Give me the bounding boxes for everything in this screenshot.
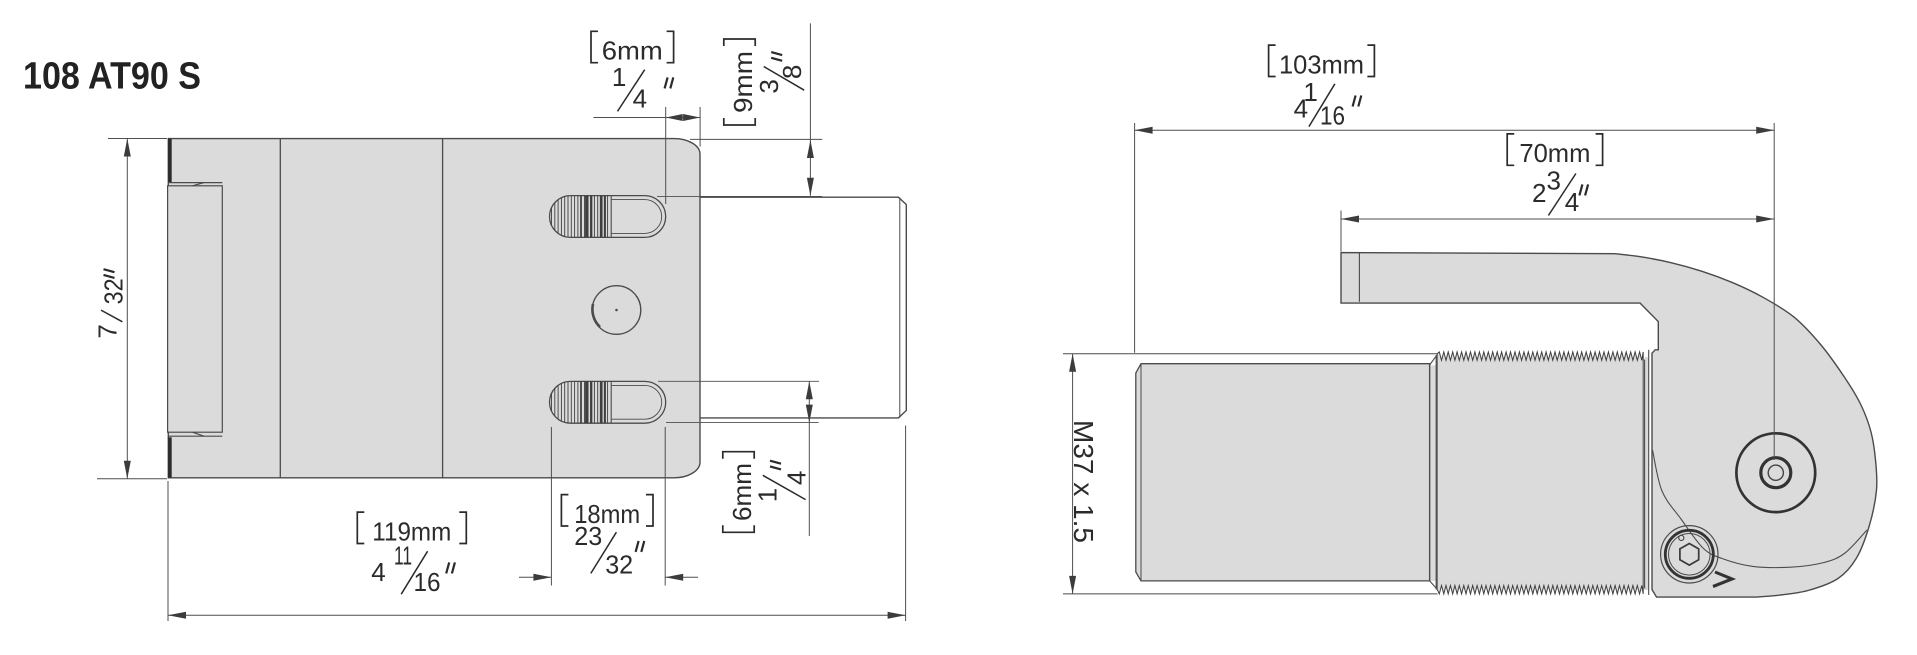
svg-text:23: 23 xyxy=(574,521,602,551)
thread run-out chamfer bottom xyxy=(1430,581,1438,590)
svg-text:7: 7 xyxy=(92,324,122,338)
height dimension 7/32 inch xyxy=(97,139,167,479)
dimension M37 x 1.5 xyxy=(1069,354,1076,594)
arm left chamfer line xyxy=(1358,253,1360,302)
label [103mm] xyxy=(1269,45,1276,76)
thread relief groove band xyxy=(1430,365,1437,581)
threaded section with sawtooth thread profile xyxy=(1437,352,1643,594)
svg-text:3: 3 xyxy=(754,79,784,93)
stamped chevron mark xyxy=(1713,572,1732,587)
label [18mm] xyxy=(561,495,568,526)
thick left edge upper segment xyxy=(168,139,172,183)
dimension [6mm] 1/4 inch bottom right xyxy=(658,381,819,536)
rotated label 3/8 inch xyxy=(754,52,807,94)
head disc far-edge inner arc xyxy=(1653,450,1868,568)
thick left edge lower segment xyxy=(168,437,172,478)
upper slot hatch boundary xyxy=(610,196,612,238)
dimension [70mm] 2 3/4 inch xyxy=(1341,211,1774,252)
hex socket xyxy=(1680,544,1699,566)
left inset plate xyxy=(168,186,223,432)
center hole shading arc xyxy=(592,304,600,327)
label [70mm] xyxy=(1507,134,1514,165)
cylinder left chamfer line xyxy=(1140,364,1142,581)
hex socket screw head ring xyxy=(1665,530,1713,578)
center hole dot xyxy=(615,309,618,312)
svg-text:4: 4 xyxy=(1565,187,1579,217)
svg-text:4: 4 xyxy=(371,557,385,587)
svg-text:1: 1 xyxy=(753,488,783,502)
shank (rectangular tool shank right of body) xyxy=(699,197,906,418)
lower slot inner contour xyxy=(611,385,662,419)
label 4 11/16 inch xyxy=(371,541,455,597)
hex socket screw outer circle xyxy=(1661,526,1718,583)
body division line 2 xyxy=(442,139,444,478)
svg-text:32: 32 xyxy=(98,278,128,304)
label [119mm] xyxy=(357,512,364,543)
lower slot outline xyxy=(550,381,666,423)
rotated label [6mm] bottom xyxy=(723,452,757,533)
svg-text:70mm: 70mm xyxy=(1519,138,1590,168)
svg-text:1: 1 xyxy=(1303,77,1317,107)
thread major diameter top line xyxy=(1063,353,1437,355)
plate bottom double line xyxy=(168,435,222,437)
svg-text:M37 x 1.5: M37 x 1.5 xyxy=(1068,420,1099,543)
label [6mm] top xyxy=(591,31,598,62)
dimension [9mm] 3/8 inch xyxy=(657,23,822,196)
small index dot on screw xyxy=(1679,535,1684,540)
lower slot hatch boundary xyxy=(610,381,612,423)
svg-text:2: 2 xyxy=(1532,178,1546,208)
svg-text:16: 16 xyxy=(414,567,441,597)
label 4 1/16 inch xyxy=(1294,77,1362,131)
svg-text:103mm: 103mm xyxy=(1279,49,1364,79)
dimension [18mm] 23/32 inch xyxy=(519,427,698,586)
pivot boss inner circle xyxy=(1768,465,1783,480)
svg-text:16: 16 xyxy=(1320,100,1345,130)
dimension [6mm] 1/4 inch top xyxy=(593,107,700,204)
plate top double line xyxy=(168,182,222,184)
smooth cylinder section xyxy=(1136,364,1430,581)
svg-text:4: 4 xyxy=(781,471,811,485)
thread major diameter bottom line xyxy=(1063,593,1438,595)
label 2 3/4 inch xyxy=(1532,166,1588,217)
thread end face band at head xyxy=(1645,357,1649,590)
svg-text:1: 1 xyxy=(612,62,626,92)
label 23/32 inch xyxy=(574,521,644,579)
thread run-out chamfer top xyxy=(1430,355,1438,365)
upper slot screw hatching xyxy=(552,196,608,238)
upper slot inner contour xyxy=(611,200,662,234)
plate top chamfer tick xyxy=(193,183,205,186)
rotated label 7/32 inch xyxy=(92,269,128,338)
upper slot outline xyxy=(550,196,666,238)
hex socket screw inner ring xyxy=(1669,534,1711,576)
svg-text:11: 11 xyxy=(394,541,412,571)
label 1/4 inch top xyxy=(612,62,673,114)
rotated label 1/4 inch bottom xyxy=(753,461,812,503)
plate bottom chamfer tick xyxy=(193,432,205,436)
head assembly outline (arm + round head + clamp block) xyxy=(1341,253,1877,597)
dimension [103mm] 4 1/16 inch xyxy=(1135,123,1775,460)
pivot boss outer circle xyxy=(1736,433,1815,512)
shank end chamfer line xyxy=(899,198,901,418)
svg-text:3: 3 xyxy=(1546,166,1560,196)
rotated label [9mm] xyxy=(724,39,758,125)
center hole circle xyxy=(592,286,641,335)
dimension [119mm] 4 11/16 inch xyxy=(168,426,906,622)
svg-text:108 AT90 S: 108 AT90 S xyxy=(23,56,201,98)
lower slot screw hatching xyxy=(552,381,608,423)
svg-text:4: 4 xyxy=(633,84,647,114)
tool body (gray block, rounded right corners) xyxy=(168,139,700,478)
pivot boss middle ring xyxy=(1761,458,1791,488)
svg-text:32: 32 xyxy=(605,550,633,580)
body division line 1 xyxy=(279,139,281,478)
